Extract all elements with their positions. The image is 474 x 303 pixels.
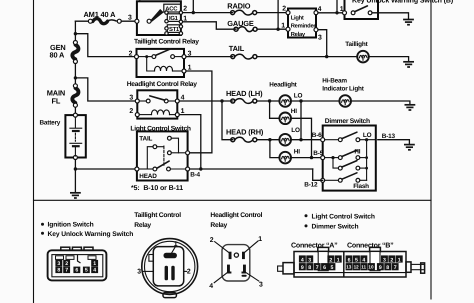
svg-text:4: 4 [93,268,96,274]
wire LH LO lamp to hi-beam indicator [291,100,340,102]
ignition switch rotor blade [147,19,151,23]
svg-text:Key Unlock Warning Switch: Key Unlock Warning Switch [48,231,134,238]
node tap to headlight control relay [74,76,77,79]
node [276,28,279,31]
connector strip left plug [283,263,294,274]
svg-text:Dimmer Switch: Dimmer Switch [312,223,359,230]
svg-text:Headlight Control: Headlight Control [210,212,262,219]
legend bullet light control switch [305,214,308,217]
wire to RH lamps [257,139,280,141]
svg-text:7: 7 [394,265,397,271]
svg-text:2: 2 [183,6,187,13]
svg-text:3: 3 [383,257,386,263]
ground key unlock switch [403,20,414,25]
svg-text:9: 9 [379,265,382,271]
svg-text:2: 2 [329,257,332,263]
node [199,167,202,170]
svg-text:80 A: 80 A [50,51,66,60]
connector strip right plug [406,262,411,272]
svg-text:4: 4 [362,257,365,263]
svg-text:6: 6 [323,265,326,271]
svg-text:2: 2 [129,108,133,115]
svg-text:LO: LO [294,92,303,99]
svg-text:Light Control Switch: Light Control Switch [312,213,375,220]
svg-text:3: 3 [137,269,141,276]
dimmer flash pole [325,179,339,181]
wire RADIO fuse to light reminder relay pin 2 [257,12,288,14]
svg-text:Flash: Flash [353,183,369,190]
node [325,55,328,58]
dimmer LO pole [325,139,339,141]
node [192,11,195,14]
svg-text:1: 1 [398,257,401,263]
node head fuse branch [220,99,223,102]
middle contact [168,151,172,155]
wire B-4 [190,168,313,170]
wire: main battery feed vertical [74,21,76,42]
svg-text:AM1 40 A: AM1 40 A [84,10,117,19]
wire branch down to HEAD RH fuse [222,101,233,140]
svg-text:TAIL: TAIL [229,44,245,53]
svg-text:1: 1 [93,261,96,267]
svg-text:8: 8 [57,268,60,274]
wire to LH lamps [257,100,280,102]
svg-text:Headlight: Headlight [269,82,297,89]
svg-text:10: 10 [368,265,374,270]
svg-text:6: 6 [75,268,78,274]
svg-text:3: 3 [259,282,263,289]
wire RH HI lamp to dimmer B-5 [291,157,323,159]
svg-text:4: 4 [209,283,213,290]
svg-text:RADIO: RADIO [227,1,250,10]
dimmer HI pole [325,157,339,159]
svg-text:Relay: Relay [134,222,151,229]
legend headlight relay connector [209,236,263,290]
svg-text:HI: HI [291,108,297,115]
svg-text:4: 4 [301,257,304,263]
svg-text:3: 3 [57,261,60,267]
svg-text:2: 2 [129,50,133,57]
switch blade [157,161,169,168]
wire to dimmer B-12 [313,169,323,180]
svg-text:9: 9 [301,265,304,271]
svg-text:LO: LO [291,127,300,134]
svg-text:Battery: Battery [40,119,61,126]
ground battery [70,193,81,198]
wire headlight relay pin4 to HEAD LH fuse [179,100,233,102]
light control switch box [137,131,188,180]
svg-text:TAIL: TAIL [139,135,152,142]
wire stub from top [336,0,338,13]
svg-text:LO: LO [363,132,372,139]
svg-text:3: 3 [128,15,132,22]
fusible link MAIN FL [72,88,78,103]
svg-text:B-6: B-6 [312,132,322,139]
wire tap to taillight relay pin 2 [75,34,136,57]
wire ground bus to light control switch [75,168,136,170]
wire pin4 to key unlock warning switch [318,12,345,14]
svg-text:B-4: B-4 [190,172,200,179]
ignition terminal ACC [164,4,181,12]
wire LO join vertical [300,101,302,140]
wire battery to ground [74,158,76,193]
svg-text:5: 5 [355,257,358,263]
wire [74,105,76,115]
svg-text:5: 5 [85,268,88,274]
svg-text:7: 7 [65,268,68,274]
svg-text:HI: HI [354,148,360,155]
ground taillight [403,62,414,67]
wire stub from top to GAUGE wire [277,0,279,29]
wire [74,62,76,86]
svg-text:Ignition Switch: Ignition Switch [48,222,94,229]
connector A pins [299,255,306,262]
svg-text:Taillight Control: Taillight Control [134,212,181,219]
fusible link GEN 80 A [72,45,78,59]
node ground bus tap [74,167,77,170]
headlamp RH LO [279,134,291,146]
light reminder relay box [288,9,316,38]
svg-text:1: 1 [258,236,262,243]
wire light reminder pin3 down to TAIL wire [318,30,327,57]
svg-text:Reminder: Reminder [291,23,317,30]
legend taillight relay connector [137,239,197,298]
wire GAUGE fuse to light reminder relay pin 1 [257,28,288,30]
legend connector A/B strip [278,247,425,277]
svg-text:HEAD (LH): HEAD (LH) [226,89,263,98]
svg-text:11: 11 [361,265,366,270]
svg-text:HI: HI [294,149,300,156]
svg-text:Connector “A”: Connector “A” [291,242,338,250]
switch common contact A [153,145,157,149]
svg-text:Headlight Control Relay: Headlight Control Relay [127,81,198,88]
wire headlight relay pin1 to ground bus [179,115,201,169]
svg-text:HEAD: HEAD [139,173,157,180]
node tap to taillight control relay [74,32,77,35]
wire tap to headlight relay pin 3 [75,78,137,101]
legend bullet ignition switch [41,223,44,226]
svg-text:4: 4 [318,6,322,13]
dimmer mid pole [333,158,338,169]
svg-text:3: 3 [129,95,133,102]
separator line between schematic and legend [34,199,432,201]
dimmer switch box [323,126,376,191]
svg-text:Key Unlock Warning Switch (B): Key Unlock Warning Switch (B) [352,0,453,5]
svg-text:1: 1 [281,22,285,29]
ground hi-beam indicator [405,105,416,110]
svg-text:2: 2 [210,237,214,244]
headlight control relay box [137,90,177,118]
switch blade [355,6,368,12]
svg-text:Hi-Beam: Hi-Beam [322,78,347,85]
wire taillight lamp to ground [369,57,409,62]
svg-text:Dimmer Switch: Dimmer Switch [325,118,370,125]
svg-text:*5: B-10 or B-11: *5: B-10 or B-11 [131,185,183,192]
svg-text:Indicator Light: Indicator Light [322,85,364,92]
wire hi-beam indicator to ground [351,101,410,105]
svg-text:Connector “B”: Connector “B” [347,242,394,250]
relay contacts [139,100,146,102]
svg-text:2: 2 [282,5,286,12]
svg-text:Taillight: Taillight [345,41,368,48]
TAIL contact [168,136,172,140]
svg-text:13: 13 [346,265,352,270]
svg-text:7: 7 [316,265,319,271]
wire taillight relay pin1 down to light control switch [186,71,212,153]
svg-text:Taillight Control Relay: Taillight Control Relay [134,39,199,46]
fusible link AM1 40 A [93,19,108,24]
wire AM1 branch [75,20,90,22]
svg-text:2: 2 [187,269,191,276]
battery [65,115,85,157]
svg-text:FL: FL [52,97,61,106]
wire AM1 to ignition switch [121,20,137,22]
wire stub from top to ACC wire [192,0,194,13]
wire RH LO lamp to dimmer B-6 [291,139,323,141]
svg-text:Relay: Relay [291,31,306,38]
svg-text:1: 1 [337,257,340,263]
svg-text:Relay: Relay [210,222,227,229]
relay coil [139,114,151,116]
taillight control relay box [137,49,185,77]
wire IG1 to GAUGE fuse [183,22,236,29]
svg-text:8: 8 [386,265,389,271]
svg-text:8: 8 [308,265,311,271]
svg-text:3: 3 [318,34,322,41]
relay contacts [139,56,153,58]
ignition switch box [137,1,181,35]
node [335,11,338,14]
svg-text:2: 2 [390,257,393,263]
headlamp LH LO [279,95,291,107]
svg-text:HEAD (RH): HEAD (RH) [226,127,264,136]
mechanical link dashed [163,146,165,166]
dimmer output bus [366,140,368,181]
wire TAIL fuse to taillight lamp [257,56,357,58]
svg-text:B-12: B-12 [304,182,318,189]
relay coil [145,55,148,58]
ignition terminal IG1 [167,14,181,22]
headlamp RH HI [279,152,291,164]
headlamp LH HI [279,113,291,125]
svg-text:2: 2 [65,261,68,267]
svg-text:Light: Light [291,14,304,21]
border left frame line [33,0,35,303]
border right frame line [430,0,432,299]
svg-text:12: 12 [354,265,360,270]
ground dimmer [404,145,415,150]
legend ignition connector [48,247,107,280]
svg-text:3: 3 [308,257,311,263]
svg-text:6: 6 [348,257,351,263]
wire taillight relay pin3 to TAIL fuse [186,56,233,58]
legend bullet dimmer switch [305,224,308,227]
connector B pins [346,255,353,262]
wire to ground [372,13,409,20]
svg-text:5: 5 [331,265,334,271]
svg-text:IG1: IG1 [169,15,179,22]
key unlock warning switch box [345,0,379,19]
wire ACC to RADIO fuse [183,12,233,14]
HEAD row contacts [139,168,153,170]
svg-text:ST1: ST1 [169,26,180,33]
legend bullet key unlock warning switch [41,232,44,235]
ignition terminal ST1 [167,25,181,33]
wire HI join vertical [291,118,312,157]
B-13 label and wire to ground [378,140,410,145]
svg-text:B-13: B-13 [382,133,396,140]
